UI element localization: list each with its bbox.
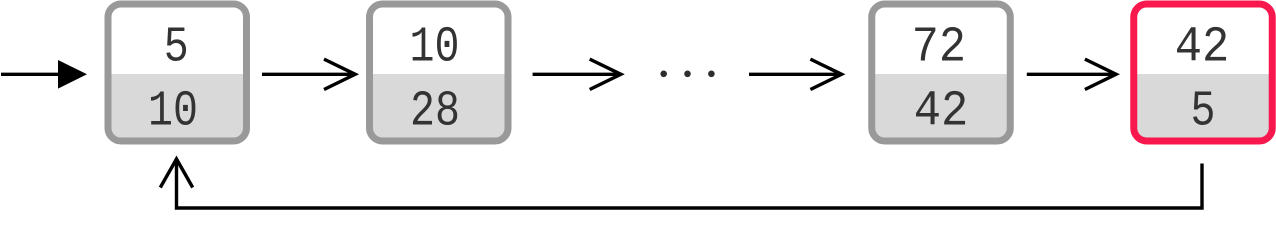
- svg-text:28: 28: [410, 82, 460, 140]
- svg-text:72: 72: [912, 19, 966, 76]
- svg-text:42: 42: [1175, 20, 1230, 77]
- svg-text:5: 5: [1191, 82, 1216, 140]
- svg-text:10: 10: [410, 18, 460, 76]
- svg-text:5: 5: [164, 18, 189, 76]
- svg-text:42: 42: [914, 84, 969, 141]
- svg-text:10: 10: [148, 82, 198, 140]
